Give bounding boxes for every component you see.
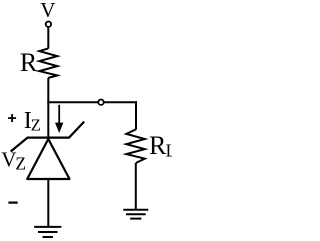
- svg-text:Z: Z: [31, 116, 41, 135]
- minus sign: [8, 202, 17, 204]
- resistor R: [39, 48, 57, 78]
- terminal circle top: [46, 22, 51, 27]
- wire horizontal branch to load: [47, 101, 137, 103]
- svg-text:Z: Z: [15, 153, 26, 173]
- zener diode triangle: [27, 139, 69, 179]
- resistor RL: [126, 129, 145, 163]
- wire corner down to RL: [135, 101, 137, 129]
- svg-text:R: R: [20, 48, 38, 77]
- svg-text:L: L: [166, 141, 172, 161]
- svg-text:R: R: [149, 131, 167, 160]
- wire zener to ground left: [47, 179, 49, 226]
- ground left: [34, 227, 61, 237]
- wire V terminal to resistor R: [47, 27, 49, 48]
- svg-text:V: V: [40, 0, 55, 22]
- current arrow IZ: [58, 105, 60, 124]
- zener diode cathode bar: [11, 122, 85, 152]
- ground right: [123, 210, 148, 219]
- plus sign: [8, 114, 16, 122]
- terminal circle output node: [98, 100, 103, 105]
- wire R to zener node: [47, 78, 49, 139]
- svg-text:V: V: [1, 148, 16, 172]
- wire RL to ground right: [135, 163, 137, 210]
